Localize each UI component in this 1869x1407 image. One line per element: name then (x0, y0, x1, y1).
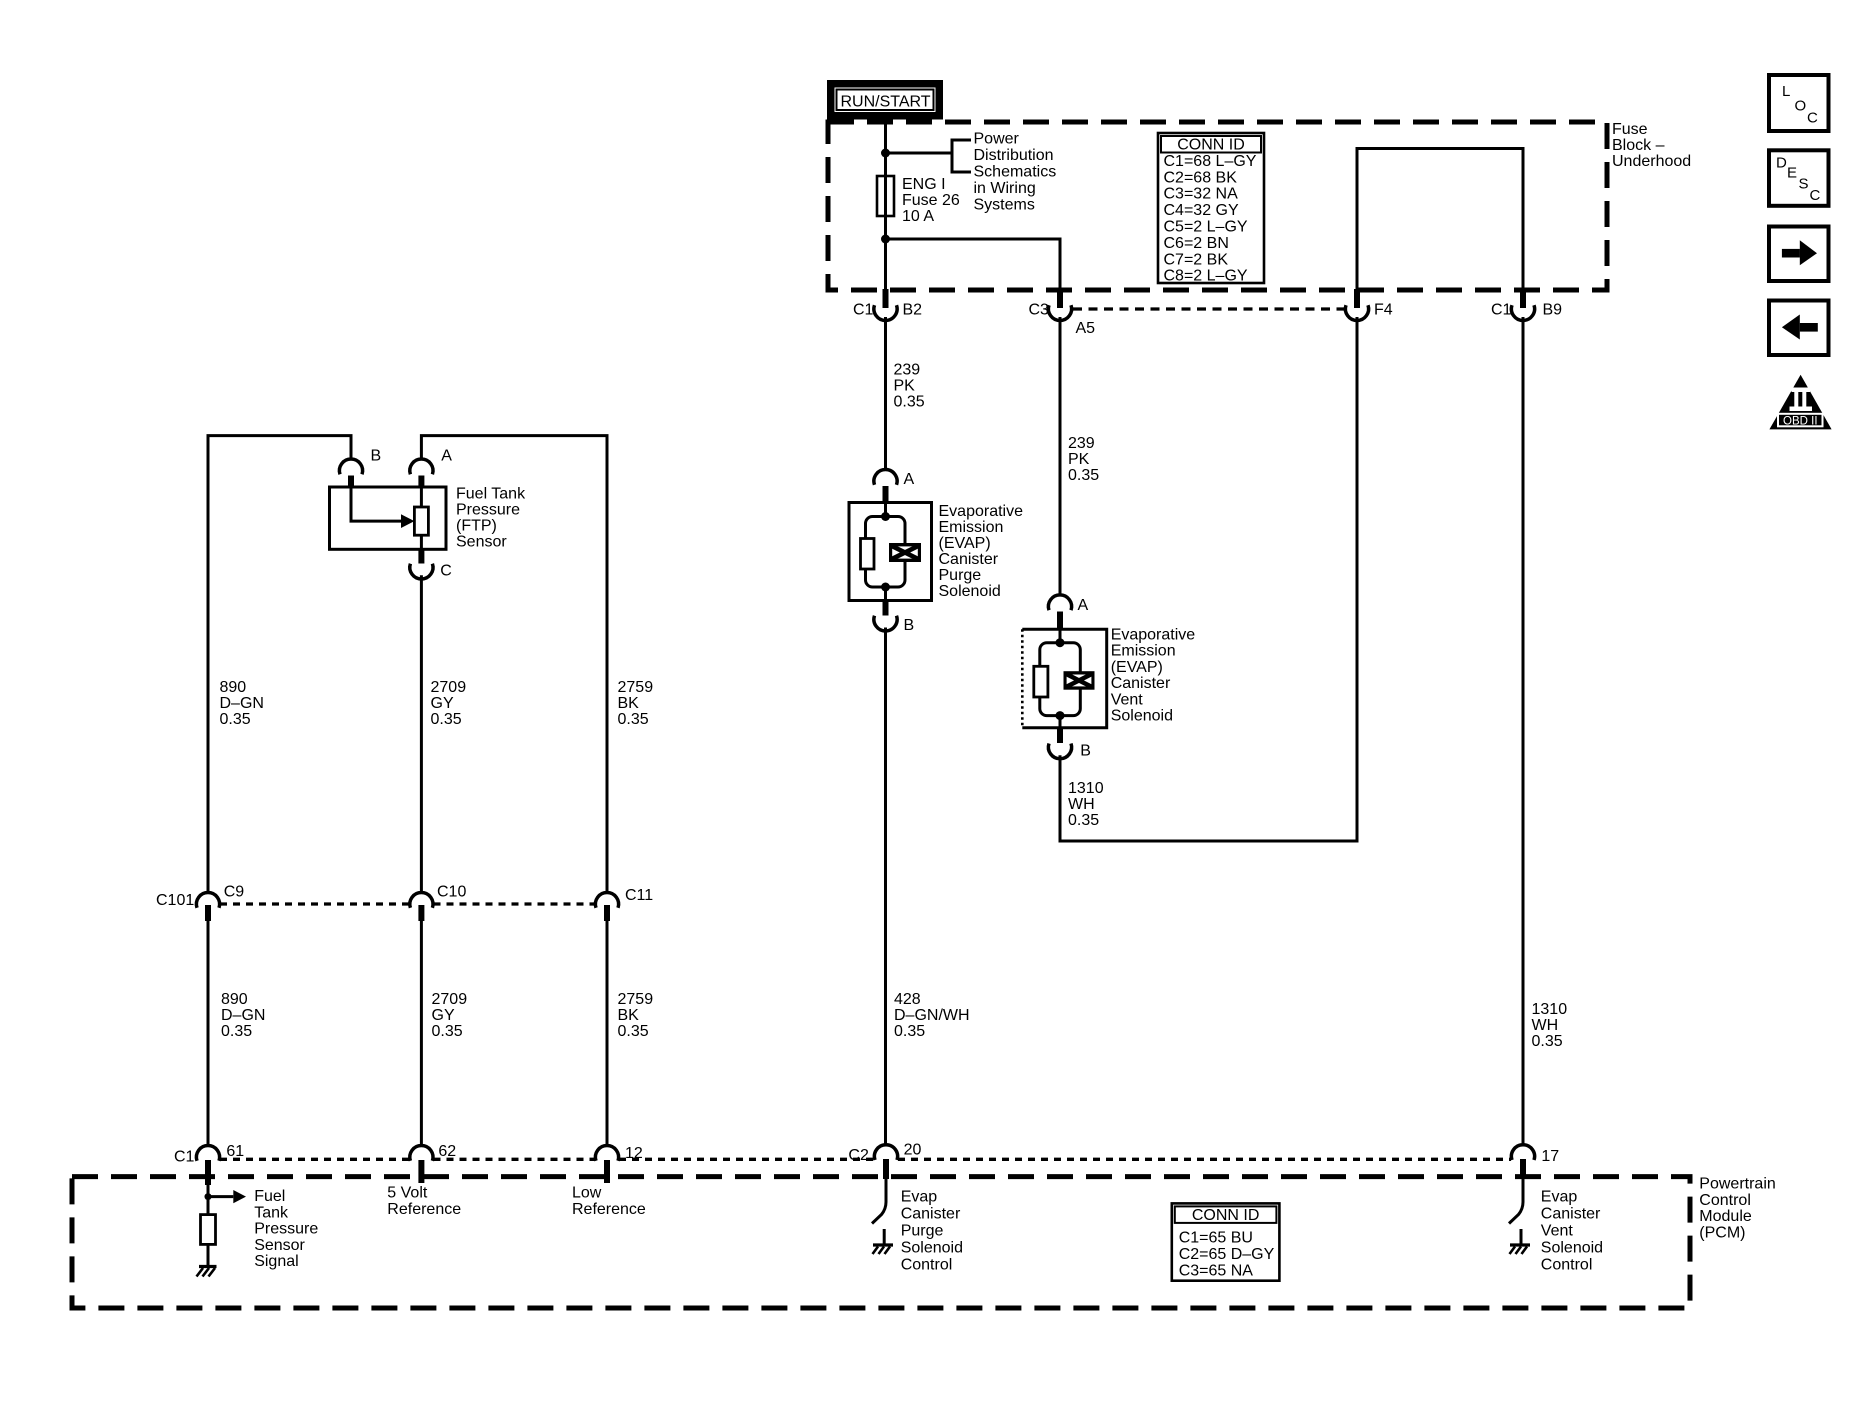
wire 890 lower segment to PCM pin 61 (207, 921, 210, 1146)
svg-text:Solenoid: Solenoid (939, 583, 1001, 600)
wire 428 purge B down to PCM pin 20 (884, 628, 887, 1147)
svg-text:C2: C2 (848, 1147, 869, 1164)
svg-text:Canister: Canister (1111, 675, 1171, 692)
svg-text:890: 890 (220, 679, 247, 696)
svg-text:Reference: Reference (387, 1201, 461, 1218)
svg-text:CONN ID: CONN ID (1177, 137, 1245, 154)
svg-text:C9: C9 (224, 883, 245, 900)
svg-text:C3=32 NA: C3=32 NA (1164, 186, 1239, 203)
svg-text:C6=2 BN: C6=2 BN (1164, 235, 1229, 252)
wire top bus left segment to FTP B (208, 436, 351, 894)
svg-text:Control: Control (1541, 1257, 1593, 1274)
svg-text:Control: Control (901, 1257, 953, 1274)
svg-text:Module: Module (1699, 1208, 1752, 1225)
svg-text:C3=65 NA: C3=65 NA (1179, 1262, 1254, 1279)
svg-text:A: A (1078, 597, 1089, 614)
svg-text:B: B (904, 617, 915, 634)
svg-text:GY: GY (432, 1007, 455, 1024)
svg-text:17: 17 (1541, 1148, 1559, 1165)
wire 2709 lower segment to PCM pin 62 (420, 921, 423, 1146)
label fuel tank pressure FTP sensor (456, 486, 526, 551)
icon LOC box (1769, 75, 1829, 131)
svg-text:BK: BK (618, 695, 640, 712)
svg-text:0.35: 0.35 (431, 711, 462, 728)
svg-text:239: 239 (1068, 435, 1095, 452)
node junction above fuse (881, 149, 890, 158)
svg-text:0.35: 0.35 (894, 1023, 925, 1040)
solenoid EVAP canister purge (849, 503, 932, 601)
svg-text:Pressure: Pressure (254, 1221, 318, 1238)
svg-text:C2=68 BK: C2=68 BK (1164, 169, 1238, 186)
fuse ENG I Fuse 26 10 A (877, 176, 894, 216)
svg-text:CONN ID: CONN ID (1192, 1207, 1260, 1224)
icon forward arrow box (1769, 227, 1829, 282)
svg-text:Solenoid: Solenoid (1541, 1240, 1603, 1257)
svg-text:Vent: Vent (1541, 1222, 1574, 1239)
connector C11 (595, 887, 653, 921)
svg-text:Sensor: Sensor (456, 534, 507, 551)
connector pin 12 PCM (595, 1145, 642, 1183)
wire 1310 vent B down and across up to F4 (1060, 317, 1357, 841)
svg-text:Evaporative: Evaporative (939, 503, 1024, 520)
wire top bus right segment 2759 to FTP A (421, 436, 607, 894)
label 1310 WH 0.35 center (1068, 780, 1104, 829)
label 890 D-GN 0.35 upper (220, 679, 264, 728)
label 1310 WH 0.35 right column (1532, 1001, 1568, 1050)
svg-text:Vent: Vent (1111, 691, 1144, 708)
bracket power distribution note (952, 140, 971, 172)
svg-text:C5=2 L–GY: C5=2 L–GY (1164, 219, 1248, 236)
svg-text:A5: A5 (1076, 320, 1096, 337)
icon back arrow box (1769, 301, 1829, 356)
label fuel tank pressure sensor signal (254, 1188, 318, 1270)
wire dashed harness line C10 to C11 (434, 902, 596, 905)
connector pin 62 PCM (410, 1143, 456, 1183)
label evaporative emission EVAP canister purge solenoid (939, 503, 1024, 600)
svg-text:Emission: Emission (1111, 643, 1176, 660)
svg-text:Block –: Block – (1612, 137, 1665, 154)
svg-text:0.35: 0.35 (1068, 467, 1099, 484)
connector C1 B2 at fuse block (853, 289, 922, 320)
svg-text:Tank: Tank (254, 1204, 289, 1221)
svg-text:S: S (1799, 176, 1809, 193)
svg-text:D–GN: D–GN (220, 695, 264, 712)
svg-text:890: 890 (221, 991, 248, 1008)
label ENG I Fuse 26 10 A (902, 176, 960, 225)
svg-text:Fuse 26: Fuse 26 (902, 192, 960, 209)
svg-text:BK: BK (618, 1007, 640, 1024)
label 5 volt reference (387, 1185, 461, 1218)
svg-text:Solenoid: Solenoid (901, 1240, 963, 1257)
svg-text:C: C (1810, 187, 1821, 204)
svg-text:C1: C1 (1491, 302, 1512, 319)
wire resistor to ground (207, 1244, 210, 1266)
label 890 D-GN 0.35 lower (221, 991, 265, 1040)
svg-text:0.35: 0.35 (1532, 1033, 1563, 1050)
svg-text:Canister: Canister (901, 1205, 961, 1222)
svg-text:B: B (371, 448, 382, 465)
switch driver vent solenoid control (1509, 1179, 1523, 1224)
svg-text:Control: Control (1699, 1192, 1751, 1209)
svg-text:Evap: Evap (901, 1188, 938, 1205)
svg-text:C1=68 L–GY: C1=68 L–GY (1164, 153, 1257, 170)
svg-text:B: B (1080, 743, 1091, 760)
svg-text:C7=2 BK: C7=2 BK (1164, 251, 1229, 268)
connector C10 (410, 883, 467, 921)
svg-text:C11: C11 (625, 887, 653, 904)
switch driver purge solenoid control (872, 1179, 886, 1224)
svg-text:62: 62 (438, 1143, 456, 1160)
connector C101 C9 (156, 883, 244, 921)
connector A vent solenoid (1048, 595, 1088, 629)
solenoid EVAP canister vent (1022, 629, 1106, 728)
svg-text:61: 61 (226, 1143, 244, 1160)
svg-text:Reference: Reference (572, 1201, 646, 1218)
connector B FTP sensor (339, 448, 381, 488)
svg-text:0.35: 0.35 (894, 394, 925, 411)
svg-text:0.35: 0.35 (1068, 812, 1099, 829)
wire dotted PCM connector face line (220, 1158, 1511, 1161)
wire junction to C3 A5 drop (886, 239, 1061, 292)
svg-text:2759: 2759 (618, 679, 654, 696)
svg-text:Canister: Canister (1541, 1205, 1601, 1222)
svg-text:Emission: Emission (939, 519, 1004, 536)
svg-text:C1=65 BU: C1=65 BU (1179, 1230, 1253, 1247)
label 2709 GY 0.35 lower (432, 991, 468, 1040)
wire arrow FTP sensor signal (208, 1190, 246, 1203)
icon OBD II triangle (1769, 375, 1831, 430)
svg-text:D–GN: D–GN (221, 1007, 265, 1024)
svg-text:2709: 2709 (432, 991, 468, 1008)
svg-text:C1: C1 (174, 1148, 195, 1165)
ground internal PCM left (197, 1267, 217, 1277)
svg-text:Schematics: Schematics (974, 164, 1057, 181)
svg-text:0.35: 0.35 (221, 1023, 252, 1040)
icon DESC box (1769, 150, 1829, 206)
svg-text:2709: 2709 (431, 679, 467, 696)
svg-text:GY: GY (431, 695, 454, 712)
svg-text:0.35: 0.35 (432, 1023, 463, 1040)
wire junction to power distribution bracket (886, 152, 953, 155)
svg-text:C8=2 L–GY: C8=2 L–GY (1164, 268, 1248, 285)
svg-text:Evap: Evap (1541, 1188, 1578, 1205)
svg-text:C2=65 D–GY: C2=65 D–GY (1179, 1246, 1275, 1263)
svg-text:O: O (1795, 98, 1807, 115)
svg-text:in Wiring: in Wiring (974, 180, 1036, 197)
label Power Distribution Schematics in Wiring Systems (974, 131, 1057, 214)
svg-text:C1: C1 (853, 302, 874, 319)
wire B9 down to PCM pin 17 (1522, 317, 1525, 1146)
label Powertrain Control Module PCM (1699, 1176, 1775, 1242)
connector F4 at fuse block (1345, 289, 1392, 320)
switch RUN/START ignition feed box (827, 80, 943, 120)
svg-text:RUN/START: RUN/START (840, 94, 930, 111)
svg-text:5 Volt: 5 Volt (387, 1185, 428, 1202)
svg-text:C: C (440, 563, 452, 580)
svg-text:D: D (1776, 155, 1787, 172)
label evap canister purge solenoid control (901, 1188, 963, 1273)
node junction FTP signal (205, 1193, 212, 1200)
svg-text:F4: F4 (1374, 302, 1393, 319)
label 2759 BK 0.35 upper (618, 679, 654, 728)
wire 239 PK B2 down to purge connector A (884, 317, 887, 471)
svg-text:D–GN/WH: D–GN/WH (894, 1007, 970, 1024)
svg-text:PK: PK (894, 378, 916, 395)
svg-text:Fuse: Fuse (1612, 121, 1648, 138)
svg-text:Underhood: Underhood (1612, 153, 1691, 170)
svg-text:2759: 2759 (618, 991, 654, 1008)
svg-text:Evaporative: Evaporative (1111, 627, 1196, 644)
sensor fuel tank pressure FTP (330, 487, 447, 549)
svg-text:Fuel Tank: Fuel Tank (456, 486, 526, 503)
svg-text:10 A: 10 A (902, 208, 934, 225)
svg-text:(PCM): (PCM) (1699, 1224, 1745, 1241)
svg-text:PK: PK (1068, 451, 1090, 468)
svg-text:Purge: Purge (901, 1222, 944, 1239)
svg-text:Low: Low (572, 1185, 602, 1202)
svg-text:C3: C3 (1029, 302, 1050, 319)
powertrain control module PCM dashed box (72, 1177, 1690, 1308)
svg-text:Systems: Systems (974, 196, 1035, 213)
wire 2709 FTP C down to C10 (420, 575, 423, 893)
connector C1 B9 at fuse block (1491, 289, 1562, 320)
ground driver vent (1510, 1229, 1531, 1254)
wire dashed harness line A5 to F4 (1073, 307, 1344, 310)
svg-text:Canister: Canister (939, 551, 999, 568)
resistor PCM pull-up (201, 1215, 216, 1245)
label 239 PK 0.35 right (1068, 435, 1099, 484)
svg-text:WH: WH (1068, 796, 1095, 813)
svg-text:E: E (1787, 165, 1797, 182)
wire F4 to B9 loop inside fuse block (1357, 149, 1523, 293)
CONN ID table PCM (1172, 1203, 1280, 1280)
svg-text:C4=32 GY: C4=32 GY (1164, 202, 1239, 219)
connector C2 pin 20 PCM (848, 1142, 921, 1179)
label low reference (572, 1185, 646, 1218)
CONN ID table fuse block (1158, 133, 1264, 285)
connector B vent solenoid (1048, 728, 1091, 760)
svg-text:Pressure: Pressure (456, 502, 520, 519)
svg-text:B2: B2 (903, 302, 923, 319)
svg-text:Signal: Signal (254, 1253, 298, 1270)
svg-text:Sensor: Sensor (254, 1237, 305, 1254)
connector C FTP sensor (410, 549, 452, 579)
connector C1 pin 61 PCM (174, 1143, 244, 1185)
svg-text:A: A (904, 471, 915, 488)
svg-text:A: A (441, 448, 452, 465)
svg-text:428: 428 (894, 991, 921, 1008)
svg-text:Power: Power (974, 131, 1020, 148)
svg-text:WH: WH (1532, 1017, 1559, 1034)
svg-text:ENG I: ENG I (902, 176, 946, 193)
connector B purge solenoid (874, 601, 914, 635)
label 2759 BK 0.35 lower (618, 991, 654, 1040)
svg-text:Solenoid: Solenoid (1111, 708, 1173, 725)
connector C3 A5 at fuse block (1029, 289, 1096, 337)
node junction below fuse (881, 235, 890, 244)
wire dashed harness line C9 to C10 (220, 902, 409, 905)
connector pin 17 PCM (1511, 1145, 1559, 1179)
label evap canister vent solenoid control (1541, 1188, 1603, 1273)
svg-text:C10: C10 (437, 883, 466, 900)
svg-text:0.35: 0.35 (618, 711, 649, 728)
label 2709 GY 0.35 upper (431, 679, 467, 728)
svg-text:(EVAP): (EVAP) (1111, 659, 1163, 676)
svg-text:L: L (1782, 83, 1790, 100)
wire 2759 lower segment to PCM pin 12 (606, 921, 609, 1146)
svg-text:C: C (1807, 110, 1818, 127)
connector A FTP sensor (410, 448, 453, 488)
svg-text:(EVAP): (EVAP) (939, 535, 991, 552)
svg-text:Fuel: Fuel (254, 1188, 285, 1205)
wire from RUN/START through fuse to connector B2 (884, 120, 887, 293)
label Fuse Block - Underhood (1612, 121, 1691, 170)
connector A purge solenoid (874, 470, 915, 503)
wire pin 61 internal (207, 1185, 210, 1215)
fuse block underhood dashed box (828, 122, 1607, 290)
svg-text:OBD II: OBD II (1783, 415, 1818, 427)
svg-text:1310: 1310 (1068, 780, 1104, 797)
svg-text:Distribution: Distribution (974, 147, 1054, 164)
svg-text:0.35: 0.35 (220, 711, 251, 728)
label 239 PK 0.35 left (894, 362, 925, 411)
svg-text:1310: 1310 (1532, 1001, 1568, 1018)
svg-text:0.35: 0.35 (618, 1023, 649, 1040)
svg-text:C101: C101 (156, 892, 194, 909)
svg-text:B9: B9 (1543, 302, 1563, 319)
svg-text:Purge: Purge (939, 567, 982, 584)
label 428 D-GN/WH 0.35 (894, 991, 970, 1040)
svg-text:Powertrain: Powertrain (1699, 1176, 1775, 1193)
svg-text:20: 20 (904, 1142, 922, 1159)
ground driver purge (873, 1229, 894, 1254)
svg-text:239: 239 (894, 362, 921, 379)
svg-text:(FTP): (FTP) (456, 518, 497, 535)
wire 239 PK A5 down to vent connector A (1059, 317, 1062, 596)
label evaporative emission EVAP canister vent solenoid (1111, 627, 1196, 725)
